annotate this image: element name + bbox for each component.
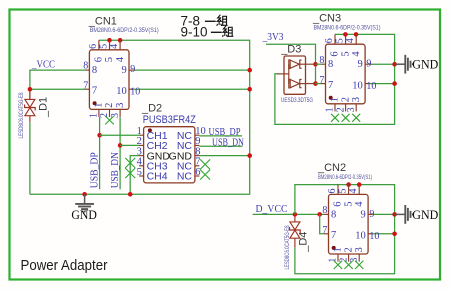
svg-text:6: 6 [195,167,200,178]
svg-text:CH4: CH4 [147,171,168,183]
CJK zu line2 [223,26,233,36]
svg-text:BM28N0.6-6DP/2-0.35V(S1): BM28N0.6-6DP/2-0.35V(S1) [318,175,372,181]
svg-text:6: 6 [333,202,344,207]
connector CN1 [85,40,134,117]
junction D_VCC pin8 [317,212,322,217]
svg-text:UESD3.3DT5G: UESD3.3DT5G [281,98,313,104]
svg-text:6: 6 [88,44,99,49]
svg-text:BM28N0.6-6DP/2-0.35V(S1): BM28N0.6-6DP/2-0.35V(S1) [314,26,381,32]
junction CN1 pin5 [107,38,112,43]
svg-text:BM28N0.6-6DP/2-0.35V(S1): BM28N0.6-6DP/2-0.35V(S1) [90,28,159,34]
svg-text:5: 5 [98,44,109,49]
svg-text:3: 3 [349,258,360,263]
svg-text:GND: GND [412,208,438,222]
wire to CN3 pin8 [316,63,322,65]
CJK yi line1 [205,20,216,22]
no-connect X D2 pin7 [200,159,210,169]
junction CN3 pin4 [354,32,359,37]
svg-text:6: 6 [327,189,338,194]
junction D_VCC D4 [293,212,298,217]
no-connect X CN3 pin2 [342,114,350,122]
wire VCC net [30,70,85,99]
junction GND pin9 [392,62,397,67]
svg-text:9: 9 [366,59,371,70]
svg-text:3: 3 [354,247,365,252]
svg-text:3: 3 [351,97,362,102]
wire D2 pin9 USB_DN stub [199,145,242,147]
wire GND top CN1 [30,40,250,194]
CN3 pin numbers inside [328,51,363,103]
junction USB_DN [118,143,123,148]
ground symbol [75,194,94,211]
svg-text:_CN2: _CN2 [317,162,346,174]
svg-text:8: 8 [328,59,333,70]
svg-text:2: 2 [340,97,351,102]
no-connect X CN1 pin2 [105,116,114,124]
svg-text:_D2: _D2 [141,102,162,114]
svg-text:9-10: 9-10 [181,25,208,40]
svg-text:LESD8C6.0CAT5G-E8: LESD8C6.0CAT5G-E8 [19,92,25,138]
svg-text:_D4: _D4 [298,232,310,253]
svg-text:4: 4 [115,56,126,62]
junction GND CN2 pin10 [392,232,397,237]
svg-text:GND: GND [71,208,97,222]
svg-text:1: 1 [330,97,341,102]
no-connect X CN3 pin1 [331,114,339,122]
svg-text:8: 8 [92,65,97,76]
svg-text:1: 1 [333,247,344,252]
connector CN2 [324,185,373,262]
wire CN1 pin9 to GND vertical [134,69,250,71]
svg-text:4: 4 [351,51,362,57]
svg-text:6: 6 [94,57,105,62]
svg-text:4: 4 [354,201,365,207]
wire CN3 pin9 to GND [370,63,395,65]
junction GND D2 pin8 [247,153,252,158]
no-connect X D2 pin5 [125,168,135,178]
junction GND pin10 [247,87,252,92]
wire 3V3 net [266,44,316,83]
svg-text:2: 2 [343,247,354,252]
svg-text:7: 7 [83,81,88,92]
wire to CN3 pin7 [316,83,322,85]
CJK zu line1 [217,15,227,25]
junction GND pin9 [247,68,252,73]
svg-text:USB_DN: USB_DN [109,152,121,188]
IC D2 PUSB3FR4Z [139,127,199,183]
svg-text:GND: GND [412,58,438,72]
svg-text:5: 5 [338,189,349,194]
svg-text:2: 2 [338,258,349,263]
wire USB_DN to D2 pin2 [120,144,139,146]
svg-text:5: 5 [137,167,142,178]
wire USB_DP to D2 pin1 [100,134,140,136]
svg-text:10: 10 [366,81,376,92]
svg-text:7: 7 [328,80,333,91]
svg-text:4: 4 [109,44,120,49]
junction GND CN2 pin9 [392,212,397,217]
svg-text:6: 6 [324,38,335,43]
diode D1 TVS bidirectional [25,91,36,122]
wire D_VCC up to CN2 top [295,185,395,274]
svg-text:10: 10 [369,231,379,242]
svg-text:10: 10 [355,231,366,242]
svg-text:10: 10 [352,80,363,91]
CN2 pin numbers outside [322,189,379,263]
CN3 pin numbers outside [319,38,376,112]
D2 pin names [147,130,193,183]
junction CN3 pin5 [343,32,348,37]
svg-text:9: 9 [358,59,363,70]
svg-text:NC: NC [177,171,193,183]
svg-text:1: 1 [328,258,339,263]
svg-text:USB_DN: USB_DN [212,137,244,149]
no-connect X CN2 pin2 [344,261,352,269]
svg-text:_D1: _D1 [38,97,50,118]
svg-text:9: 9 [121,65,126,76]
CN1 pin numbers outside [83,44,140,118]
wire USB_DN from CN1 pin3 [119,117,121,189]
no-connect X CN2 pin1 [334,261,342,269]
wire CN1 pin10 to GND vertical [134,88,250,90]
svg-text:7: 7 [322,225,327,236]
svg-text:6: 6 [330,51,341,56]
no-connect X CN2 pin3 [355,261,363,269]
svg-text:_CN3: _CN3 [312,13,341,25]
svg-text:1: 1 [89,113,100,118]
svg-text:4: 4 [348,189,359,194]
junction VCC D1 [28,87,33,92]
svg-text:_D3: _D3 [280,43,301,55]
diode D4 TVS bidirectional [290,217,301,248]
svg-text:Power Adapter: Power Adapter [21,257,108,274]
wire D2 pin8 to GND vertical [199,155,249,157]
wire CN2 pin10 to GND [373,233,395,235]
svg-text:8: 8 [319,55,324,66]
svg-text:1: 1 [94,103,105,108]
svg-text:5: 5 [335,38,346,43]
diode array D3 UESD3.3DT5G [277,56,316,94]
svg-text:8: 8 [83,61,88,72]
svg-text:USB_DP: USB_DP [89,152,101,188]
svg-text:1: 1 [325,107,336,112]
wire CN3 top GND loop [275,34,395,124]
junction CN1 pin4 [118,38,123,43]
wire CN3 pin10 to GND [370,83,395,85]
svg-text:4: 4 [345,38,356,43]
wire D_VCC net [253,213,324,215]
no-connect X CN3 pin3 [352,114,360,122]
ground symbol right CN3 [395,55,413,74]
no-connect X D2 pin4 [125,158,135,168]
junction GND pin10 [392,81,397,86]
junction 3V3 pin7 [313,81,318,86]
wire D2 pin3 to GND [130,156,139,195]
wire VCC to CN1 pin7 [30,88,85,90]
svg-text:9: 9 [369,209,374,220]
svg-text:_CN1: _CN1 [88,15,117,27]
svg-text:7: 7 [331,230,336,241]
junction 3V3 pin8 [313,62,318,67]
junction USB_DP [97,133,102,138]
wire USB_DP from CN1 pin1 [99,117,101,189]
wire D_VCC to CN2 pin7 [320,214,324,233]
svg-text:_VCC: _VCC [31,59,55,71]
svg-text:8: 8 [322,205,327,216]
wire D1 to GND [29,122,31,194]
svg-text:2: 2 [335,107,346,112]
svg-text:8: 8 [331,209,336,220]
svg-text:PUSB3FR4Z: PUSB3FR4Z [143,114,196,126]
junction D2 GND [128,192,133,197]
svg-text:5: 5 [340,51,351,56]
svg-text:5: 5 [104,57,115,62]
svg-text:5: 5 [343,202,354,207]
connector CN3 [321,34,370,111]
svg-text:LESD8C6.0CAT5G-E8: LESD8C6.0CAT5G-E8 [285,225,291,269]
D2 pin numbers [137,126,206,178]
svg-text:3: 3 [115,103,126,108]
CN2 pin numbers inside [331,201,366,253]
svg-text:2: 2 [104,103,115,108]
svg-text:10: 10 [116,86,127,97]
CN1 pin numbers inside [92,56,127,108]
svg-text:_3V3: _3V3 [262,31,284,43]
no-connect X D2 pin6 [200,170,210,180]
svg-text:9: 9 [361,209,366,220]
svg-text:D_VCC: D_VCC [256,203,288,215]
ground symbol right CN2 [395,205,413,224]
junction CN2 pin4 [357,182,362,187]
CJK yi line2 [211,31,222,33]
svg-text:7: 7 [92,86,97,97]
svg-text:7: 7 [319,75,324,86]
junction CN2 pin5 [346,182,351,187]
svg-text:9: 9 [130,64,135,75]
junction GND stem [82,192,87,197]
svg-text:3: 3 [110,113,121,118]
svg-text:10: 10 [130,87,140,98]
wire CN2 pin9 to GND [373,213,395,215]
svg-text:3: 3 [346,107,357,112]
svg-text:2: 2 [99,113,110,118]
wire D2 pin10 USB_DP stub [199,135,242,137]
